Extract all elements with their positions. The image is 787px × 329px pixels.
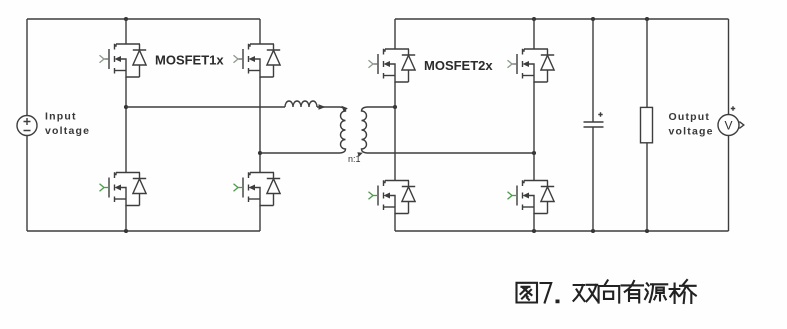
wire voltmeter lower — [728, 136, 730, 232]
wire leg1 upper — [125, 19, 127, 44]
svg-text:voltage: voltage — [669, 126, 714, 138]
voltmeter VM1 — [718, 115, 739, 136]
glyph 有 — [622, 281, 643, 302]
wire left edge lower — [26, 136, 28, 232]
transistor Q1 (left bridge, top-left MOSFET) — [100, 44, 147, 77]
wire load upper — [646, 19, 648, 107]
glyph 7. — [541, 283, 560, 303]
voltage source V1 Input — [17, 116, 37, 136]
wire load lower — [646, 143, 648, 231]
wire left top rail — [27, 18, 260, 20]
wire right leg1 middle — [394, 82, 396, 181]
wire right bottom rail — [395, 230, 729, 232]
voltmeter probe chevron — [739, 122, 744, 129]
node junction top-left leg1 — [124, 17, 128, 21]
wire left edge upper — [26, 19, 28, 116]
svg-text:voltage: voltage — [45, 125, 90, 137]
wire right leg1 upper — [394, 19, 396, 49]
caption 图7. 双向有源桥 — [517, 280, 696, 303]
wire right leg2 upper — [533, 19, 535, 49]
svg-text:MOSFET2x: MOSFET2x — [424, 58, 493, 73]
wire secondary bottom to right leg2 — [367, 152, 534, 154]
node right leg2 midpoint — [532, 151, 536, 155]
node leg2 midpoint — [258, 151, 262, 155]
glyph 桥 — [670, 280, 696, 303]
arrowhead on primary wire — [319, 104, 326, 110]
wire right leg1 lower — [394, 214, 396, 232]
wire leg2 upper — [259, 19, 261, 44]
voltmeter plus mark — [731, 106, 735, 110]
transistor Q8 (right bridge, bottom-right MOSFET) — [508, 180, 555, 213]
node top rail at capacitor — [591, 17, 595, 21]
node bottom rail at capacitor — [591, 229, 595, 233]
transistor Q3 (left bridge, bottom-left MOSFET) — [100, 172, 147, 205]
glyph 向 — [599, 280, 620, 302]
svg-text:MOSFET1x: MOSFET1x — [155, 53, 224, 68]
wire leg1 middle — [125, 77, 127, 173]
node leg1 midpoint — [124, 105, 128, 109]
transistor Q4 (left bridge, bottom-right MOSFET) — [234, 172, 281, 205]
svg-text:n:1: n:1 — [348, 154, 361, 164]
glyph 图 — [517, 283, 538, 303]
node top rail at load — [645, 17, 649, 21]
capacitor polarity plus — [598, 112, 602, 116]
transformer T1 secondary winding — [362, 107, 368, 153]
node top rail at leg2 — [532, 17, 536, 21]
glyph 双 — [574, 285, 598, 302]
wire leg2 lower — [259, 206, 261, 232]
wire right leg2 lower — [533, 214, 535, 232]
svg-text:Output: Output — [669, 111, 711, 123]
inductor L1 — [285, 101, 317, 107]
wire from leg1 mid to inductor — [126, 106, 285, 108]
transformer primary polarity arrowhead — [342, 106, 348, 112]
transistor Q2 (left bridge, top-right MOSFET) — [234, 44, 281, 77]
wire voltmeter upper — [728, 19, 730, 115]
wire inductor to transformer with arrow — [317, 106, 340, 108]
node right leg1 midpoint — [393, 105, 397, 109]
wire capacitor upper — [592, 19, 594, 122]
transistor Q6 (right bridge, top-right MOSFET) — [508, 49, 555, 82]
transistor Q5 (right bridge, top-left MOSFET) — [369, 49, 416, 82]
wire right top rail — [395, 18, 729, 20]
svg-text:Input: Input — [45, 111, 77, 123]
wire leg1 lower — [125, 206, 127, 232]
node junction bottom-left leg1 — [124, 229, 128, 233]
wire leg2 mid to transformer primary bottom — [260, 152, 340, 154]
wire leg2 middle — [259, 77, 261, 173]
resistor R1 (load) — [641, 107, 653, 142]
wire left bottom rail — [27, 230, 260, 232]
transistor Q7 (right bridge, bottom-left MOSFET) — [369, 180, 416, 213]
wire right leg2 middle — [533, 82, 535, 181]
capacitor C1 — [584, 122, 604, 127]
svg-text:V: V — [724, 119, 732, 133]
node bottom rail at load — [645, 229, 649, 233]
transformer secondary polarity arrowhead — [357, 152, 363, 157]
wire capacitor lower — [592, 127, 594, 231]
glyph 源 — [645, 283, 667, 302]
wire secondary top to right leg1 — [367, 106, 395, 108]
transformer T1 primary winding — [340, 107, 346, 153]
node bottom rail at leg2 — [532, 229, 536, 233]
